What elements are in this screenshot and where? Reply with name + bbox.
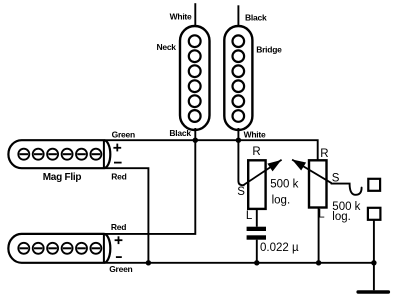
terminal - (Mag Flip)	[114, 162, 122, 164]
junction red lead on bus B	[146, 260, 151, 265]
potentiometer VR2 body (tone, 500 k log.)	[309, 160, 327, 207]
svg-text:log.: log.	[272, 195, 291, 207]
svg-text:Mag Flip: Mag Flip	[43, 172, 82, 183]
jack terminal sleeve (lower square)	[368, 208, 381, 220]
wire bus B (ground bus from pickup2 green)	[104, 262, 374, 264]
svg-text:0.022 µ: 0.022 µ	[260, 242, 299, 254]
wiper arrow VR1	[243, 160, 282, 186]
pickup Neck (vertical single-coil body)	[180, 26, 210, 130]
jack terminal tip (upper square)	[368, 179, 380, 191]
svg-text:White: White	[244, 129, 266, 139]
wire jack sleeve to ground	[373, 220, 375, 290]
svg-text:Green: Green	[112, 130, 135, 140]
wiper arrow VR2	[292, 160, 332, 184]
svg-text:Bridge: Bridge	[256, 44, 282, 54]
potentiometer VR1 body (volume, 500 k log.)	[248, 160, 265, 209]
svg-text:Neck: Neck	[156, 42, 176, 52]
wire bridge white to VR1 wiper S	[238, 140, 244, 185]
junction bridge lead on bus A	[236, 138, 241, 143]
svg-text:Red: Red	[111, 171, 126, 181]
wire VR2 L to bus B	[318, 208, 320, 263]
terminal + (Mag Flip)	[113, 144, 121, 152]
wire capacitor to bus B	[256, 240, 258, 263]
capacitor C1 (tone cap)	[247, 227, 266, 240]
svg-text:Black: Black	[245, 13, 267, 23]
pickup Mag Flip (horizontal single-coil body)	[8, 140, 110, 168]
svg-text:L: L	[246, 210, 253, 222]
wire bridge white lead (bottom, to bus)	[237, 128, 239, 140]
terminal - (pickup 2)	[116, 256, 122, 258]
ground	[356, 290, 390, 294]
junction neck lead on bus A	[193, 138, 198, 143]
pickup Bridge (vertical single-coil body)	[224, 26, 252, 130]
pickup 2 (horizontal single-coil body, lower)	[8, 234, 110, 263]
wire VR2 wiper to jack hot (with curled end)	[331, 184, 361, 195]
wire Mag Flip red lead (down to pickup2 red node)	[104, 168, 148, 263]
svg-text:R: R	[252, 146, 260, 158]
wire VR1 L to capacitor	[256, 209, 258, 227]
wire neck white lead (top)	[194, 3, 196, 26]
svg-text:Red: Red	[111, 222, 126, 232]
svg-text:White: White	[170, 12, 192, 22]
wire bus A (green/black/white tie line, turns down to right pot R)	[104, 140, 318, 160]
wire neck black lead (bottom, to bus)	[194, 128, 196, 140]
svg-text:500 k: 500 k	[270, 179, 298, 191]
svg-text:Black: Black	[169, 128, 191, 138]
junction VR2 on bus B	[316, 260, 321, 265]
svg-text:Green: Green	[109, 264, 132, 274]
svg-text:R: R	[320, 148, 328, 160]
svg-text:S: S	[237, 186, 245, 198]
terminal + (pickup 2)	[115, 236, 123, 244]
wire bridge black lead (top)	[237, 5, 239, 26]
wire neck black to pickup2 red (down and left)	[104, 140, 195, 234]
junction C1 on bus B	[254, 260, 259, 265]
svg-text:log.: log.	[332, 211, 351, 223]
junction bus B to ground wire	[371, 260, 376, 265]
svg-text:S: S	[332, 172, 340, 184]
